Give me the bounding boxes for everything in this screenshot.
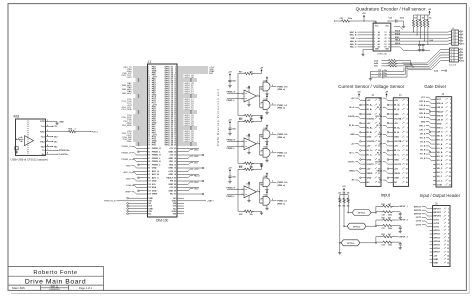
svg-text:GND: GND: [394, 177, 399, 179]
wire J1 right stub: [180, 126, 197, 128]
svg-text:1: 1: [257, 94, 258, 96]
connector J8 pin 5: [430, 222, 433, 224]
connector J1 left pin 9: [145, 74, 148, 76]
svg-text:hal 2x3: hal 2x3: [449, 65, 457, 67]
junction: [190, 94, 192, 96]
svg-text:97: 97: [148, 174, 150, 176]
junction: [138, 80, 140, 82]
connector J3 pin 11: [390, 145, 393, 147]
power flag top right cell 1: [261, 71, 263, 73]
connector J1 right pin 102: [177, 180, 180, 182]
wire bottom rail cell 1: [254, 115, 262, 117]
connector J1 left pin 69: [145, 134, 148, 136]
connector J8 pin 4: [430, 219, 433, 221]
svg-text:11: 11: [388, 41, 390, 43]
wire hal2 stub: [441, 70, 445, 72]
wire encoder bus HALB: [394, 43, 449, 45]
svg-text:GND: GND: [168, 184, 173, 186]
svg-text:PWM3_H: PWM3_H: [227, 188, 236, 190]
wire J1 right net: [180, 108, 184, 110]
connector J1 left pin 45: [145, 110, 148, 112]
svg-text:9: 9: [448, 237, 449, 239]
svg-text:11: 11: [449, 140, 451, 142]
svg-text:3: 3: [47, 130, 48, 132]
svg-text:18: 18: [174, 83, 176, 85]
ground M3 DTR: [56, 121, 58, 123]
connector J2 pin 5: [363, 118, 366, 120]
svg-text:PWM2_L: PWM2_L: [152, 158, 161, 160]
svg-text:GND: GND: [367, 177, 372, 179]
power flag input pull-ups: [343, 190, 345, 192]
connector J6 pin 13: [433, 147, 436, 149]
svg-text:68: 68: [174, 133, 176, 135]
connector J1 left pin 89: [145, 161, 148, 163]
svg-text:GPIO_30: GPIO_30: [185, 125, 195, 127]
connector J6 pin 6: [433, 119, 436, 121]
wire encoder bus ENCB: [394, 34, 449, 36]
wire encoder bus HALA: [394, 40, 449, 42]
svg-text:39: 39: [148, 105, 150, 107]
wire encoder input HAL_A: [358, 40, 374, 42]
svg-text:7: 7: [47, 149, 48, 151]
svg-text:85: 85: [148, 155, 150, 157]
svg-text:7: 7: [448, 230, 449, 232]
svg-text:HIN_A: HIN_A: [419, 100, 426, 103]
connector J2 pin 3: [363, 109, 366, 111]
wire gate output PWM1_LO: [271, 104, 276, 106]
connector J8 pin 10: [430, 240, 433, 242]
wire J6 pin 5 net label: [431, 115, 433, 117]
svg-text:98: 98: [174, 174, 176, 176]
svg-text:6: 6: [47, 145, 48, 147]
svg-text:INPUT3: INPUT3: [433, 216, 441, 218]
connector J1 left pin 57: [145, 122, 148, 124]
connector J2 body: [366, 98, 381, 187]
connector J2 pin 13: [363, 154, 366, 156]
ground pin gate U3C: [266, 205, 268, 207]
wire J2 pin 14 open end: [361, 159, 363, 161]
wire J3 pin 15 net label: [388, 163, 391, 165]
svg-text:88: 88: [174, 158, 176, 160]
wire J6 pin 11 net label: [431, 139, 433, 141]
svg-text:3: 3: [374, 38, 375, 40]
svg-text:VS_A: VS_A: [437, 143, 443, 146]
wire J1 right net: [180, 138, 184, 140]
svg-text:IN_B+: IN_B+: [349, 125, 356, 127]
wire J2 pin 2 open end: [361, 104, 363, 106]
svg-text:87: 87: [148, 158, 150, 160]
wire J1 left net: [133, 102, 145, 104]
connector J1 right pin 94: [177, 167, 180, 169]
wire encoder input ENC_I: [358, 37, 374, 39]
svg-text:9: 9: [260, 203, 261, 205]
wire J2 pin 3 net label: [360, 109, 363, 111]
connector J1 body: [148, 64, 178, 217]
connector J1 left pin 19: [145, 84, 148, 86]
connector J1 left pin 123: [145, 213, 148, 215]
wire J2 pin 5 net label: [360, 118, 363, 120]
wire M3 pin net: [51, 149, 59, 151]
svg-text:GND: GND: [127, 141, 132, 143]
junction: [138, 94, 140, 96]
svg-text:76: 76: [174, 141, 176, 143]
wire J2 pin 13 net label: [360, 154, 363, 156]
svg-text:75: 75: [148, 141, 150, 143]
wire op-amp output cell 3: [257, 191, 260, 193]
connector J1 left pin 85: [145, 154, 148, 156]
wire J1 left net: [133, 118, 145, 120]
svg-text:FAULT: FAULT: [419, 108, 426, 111]
svg-text:18: 18: [406, 177, 408, 179]
svg-text:83: 83: [148, 151, 150, 153]
wire J1 lower right stub: [180, 197, 184, 199]
connector J1 left pin 115: [145, 202, 148, 204]
svg-text:19: 19: [148, 85, 150, 87]
wire J2 pin 18 open end: [361, 177, 363, 179]
wire J1 left net: [133, 120, 145, 122]
svg-text:+5V: +5V: [394, 100, 398, 102]
svg-text:HIN_C: HIN_C: [437, 128, 444, 130]
power flag cell 3: [229, 171, 231, 173]
connector J1 right pin 28: [177, 92, 180, 94]
svg-text:GND: GND: [194, 182, 199, 184]
svg-text:GND: GND: [152, 190, 157, 192]
svg-text:19: 19: [449, 172, 451, 174]
svg-text:26: 26: [174, 91, 176, 93]
wire J1 left net: [133, 122, 145, 124]
wire input net label 2: [393, 219, 398, 221]
svg-text:5: 5: [47, 140, 48, 142]
wire encoder bus bend 2: [394, 46, 400, 48]
wire J1 lower left open end: [129, 210, 145, 212]
wire bus to opto 1: [348, 212, 352, 214]
junction: [190, 96, 192, 98]
wire J1 right net: [180, 90, 184, 92]
svg-text:LO_C: LO_C: [437, 180, 443, 182]
connector J8 pin 3: [430, 215, 433, 217]
wire gate second input U2C: [261, 149, 263, 151]
svg-text:56: 56: [174, 121, 176, 123]
svg-text:62: 62: [174, 127, 176, 129]
svg-text:PWM1_HO: PWM1_HO: [277, 86, 288, 88]
wire J2 pin 1 net label: [360, 99, 363, 101]
wire gate second input U1C: [261, 101, 263, 103]
wire input bus drops: [347, 204, 349, 213]
connector J3 pin 10: [390, 140, 393, 142]
svg-text:GND: GND: [394, 114, 399, 116]
svg-text:22: 22: [174, 87, 176, 89]
connector J1 right pin 64: [177, 128, 180, 130]
connector J1 left pin 21: [145, 86, 148, 88]
wire J1 right net: [180, 136, 184, 138]
junction: [190, 112, 192, 114]
nand gate U2B: [263, 130, 270, 139]
connector J2 pin 10: [363, 140, 366, 142]
svg-text:IN_B-: IN_B-: [394, 132, 400, 134]
connector J3 pin 9: [390, 136, 393, 138]
ground cap C7: [422, 48, 424, 50]
svg-text:GPIO_14: GPIO_14: [185, 93, 195, 95]
connector J2 pin 2: [363, 104, 366, 106]
wire J1 left plain: [133, 170, 145, 172]
svg-text:GND: GND: [126, 179, 131, 181]
connector J3 pin 3: [390, 109, 393, 111]
svg-text:U2B: U2B: [264, 128, 268, 130]
svg-text:HIN_C: HIN_C: [419, 125, 426, 127]
svg-text:13: 13: [449, 148, 451, 150]
junction open circle J6: [429, 111, 431, 113]
svg-text:GND: GND: [394, 137, 399, 139]
wire bus to opto 3: [340, 242, 341, 244]
wire J1 left no-connect: [140, 151, 145, 153]
svg-text:HAL_C: HAL_C: [350, 46, 357, 49]
svg-text:8: 8: [175, 73, 176, 75]
svg-text:20: 20: [174, 85, 176, 87]
svg-text:SCL: SCL: [152, 184, 157, 186]
connector J1 right pin 68: [177, 132, 180, 134]
connector J8 pin 1: [430, 208, 433, 210]
svg-text:1: 1: [374, 32, 375, 34]
wire J1 left net jog: [137, 148, 145, 150]
connector J3 pin 12: [390, 149, 393, 151]
svg-text:6: 6: [450, 119, 451, 121]
svg-text:VCC: VCC: [421, 97, 426, 99]
svg-text:OUT1: OUT1: [433, 219, 439, 221]
svg-text:GPIO_06: GPIO_06: [185, 77, 195, 79]
svg-text:LO_A: LO_A: [420, 145, 426, 148]
connector J8 pin 6: [430, 226, 433, 228]
power flag J2 top: [358, 95, 360, 97]
ic U2 right pin 9: [391, 34, 394, 36]
svg-text:15: 15: [148, 81, 150, 83]
svg-text:GND: GND: [168, 174, 173, 176]
wire J1 left net: [133, 134, 145, 136]
svg-text:6: 6: [407, 123, 408, 125]
wire top rail cell 3: [254, 168, 262, 170]
svg-text:1: 1: [257, 142, 258, 144]
svg-text:LIN_A: LIN_A: [437, 106, 444, 109]
capacitor C1 100n: [229, 78, 231, 81]
svg-text:GND: GND: [126, 166, 131, 168]
connector J1 left pin 99: [145, 177, 148, 179]
svg-text:NC: NC: [367, 182, 371, 184]
connector J3 body: [393, 98, 408, 187]
svg-text:PWM2_H: PWM2_H: [152, 155, 161, 157]
svg-text:VBUS: VBUS: [377, 171, 383, 173]
svg-text:IN_A+: IN_A+: [394, 104, 401, 107]
wire J2 pin 10 open end: [361, 140, 363, 142]
svg-text:12: 12: [388, 44, 390, 46]
connector J1 right pin 120: [177, 208, 180, 210]
wire J1 left net jog: [137, 180, 145, 182]
op-amp U2A: [244, 138, 257, 150]
svg-text:GND: GND: [168, 168, 173, 170]
connector J5 row divider: [450, 53, 459, 55]
connector J5 left pin 9: [447, 60, 450, 62]
wire J6 pin 4 net label: [431, 111, 433, 113]
svg-text:35: 35: [148, 101, 150, 103]
connector J2 pin 1: [363, 99, 366, 101]
svg-text:+5V: +5V: [394, 123, 398, 125]
connector J6 pin 10: [433, 135, 436, 137]
wire encoder bus bend 1: [394, 26, 400, 28]
connector J3 pin 19: [390, 181, 393, 183]
connector J4 row divider: [452, 35, 459, 37]
svg-text:11: 11: [378, 146, 380, 148]
svg-text:9: 9: [389, 35, 390, 37]
svg-text:HIN_B: HIN_B: [437, 115, 444, 117]
svg-text:VREF: VREF: [152, 194, 158, 196]
connector J6 pin 11: [433, 139, 436, 141]
ic U2 right pin 11: [391, 40, 394, 42]
connector J1 left pin 103: [145, 183, 148, 185]
wire bus to opto 2: [344, 225, 347, 227]
wire input PWM2_H: [227, 140, 244, 142]
svg-text:DTR: DTR: [40, 121, 45, 123]
wire J1 left net: [133, 130, 145, 132]
ground ic U2: [363, 49, 373, 51]
connector J1 right pin 114: [177, 200, 180, 202]
wire J1 right stub: [180, 80, 197, 82]
connector J1 right pin 54: [177, 118, 180, 120]
connector J1 left pin 83: [145, 151, 148, 153]
svg-text:1: 1: [257, 190, 258, 192]
connector J8 pin 2: [430, 211, 433, 213]
svg-text:+15V: +15V: [168, 171, 173, 173]
svg-text:ENCA: ENCA: [395, 30, 401, 33]
wire power net PWRB from J1: [117, 200, 145, 202]
wire hall bus vertical 1: [410, 61, 412, 65]
svg-text:PWM3_L: PWM3_L: [227, 196, 236, 198]
svg-text:+3V3: +3V3: [126, 77, 132, 79]
wire J2 pin 9 net label: [360, 136, 363, 138]
svg-text:12: 12: [406, 150, 408, 152]
wire J2 pin 19 net label: [360, 181, 363, 183]
svg-text:1: 1: [407, 100, 408, 102]
wire J1 right power net: [180, 66, 208, 68]
optocoupler OC3: [341, 240, 360, 246]
svg-text:21: 21: [148, 87, 150, 89]
svg-text:PWM3_L: PWM3_L: [152, 164, 161, 166]
wire J6 pin 8 net label: [431, 127, 433, 129]
svg-text:VB_B: VB_B: [437, 152, 443, 154]
svg-text:VREF: VREF: [125, 192, 131, 194]
junction: [138, 126, 140, 128]
wire J2 pin 15 net label: [360, 163, 363, 165]
connector J3 pin 5: [390, 118, 393, 120]
ground pin op-amp cell 3: [248, 196, 250, 199]
svg-text:+5V: +5V: [394, 168, 398, 170]
svg-text:80: 80: [174, 145, 176, 147]
connector J2 pin 19: [363, 181, 366, 183]
svg-text:10k: 10k: [347, 193, 350, 195]
svg-text:70: 70: [174, 135, 176, 137]
svg-text:10k: 10k: [414, 17, 417, 19]
wire J1 right net: [180, 84, 184, 86]
wire J1 lower right stub: [180, 210, 184, 212]
wire J6 pin 1 net label: [431, 98, 433, 100]
svg-text:IN_C+: IN_C+: [394, 150, 401, 152]
svg-text:38: 38: [174, 103, 176, 105]
svg-text:LIN_C: LIN_C: [437, 132, 444, 134]
wire J3 pin 4 open end: [389, 113, 391, 115]
ground rc 1: [399, 215, 401, 216]
connector J5 right pin 4: [459, 51, 460, 53]
connector J6 pin 18: [433, 167, 436, 169]
svg-text:5: 5: [448, 223, 449, 225]
connector J1 left pin 33: [145, 98, 148, 100]
wire hall sensor fans: [402, 62, 427, 64]
junction: [190, 144, 192, 146]
svg-text:INPUT1: INPUT1: [433, 209, 441, 211]
svg-text:INPUT_2: INPUT_2: [400, 220, 409, 222]
svg-text:18: 18: [449, 168, 451, 170]
wire J8 pin 4 net label: [428, 219, 430, 221]
svg-text:6: 6: [462, 55, 463, 57]
wire J1 right open end: [180, 154, 202, 156]
svg-text:GND: GND: [194, 188, 199, 190]
connector J1 right pin 108: [177, 190, 180, 192]
ground hall caps: [370, 77, 372, 79]
connector J5 body: [450, 48, 459, 62]
connector J1 right pin 26: [177, 90, 180, 92]
svg-text:9: 9: [260, 107, 261, 109]
wire M3 pin net: [51, 136, 53, 138]
connector J1 right pin 32: [177, 96, 180, 98]
wire encoder input ENC_B: [358, 34, 374, 36]
wire J6 pin 14 net label: [431, 151, 433, 153]
wire J1 lower left open end: [129, 213, 145, 215]
svg-text:VBUS: VBUS: [349, 171, 355, 173]
junction open circle J6: [429, 131, 431, 133]
wire cap C15 return: [385, 71, 404, 73]
svg-text:GND: GND: [152, 181, 157, 183]
connector J1 right pin 40: [177, 104, 180, 106]
connector J4 left pin 3: [449, 34, 452, 36]
wire J3 pin 13 net label: [388, 154, 391, 156]
svg-text:67: 67: [148, 133, 150, 135]
svg-text:10: 10: [406, 141, 408, 143]
wire encoder vcc rail: [351, 20, 376, 22]
wire J1 right net: [180, 106, 184, 108]
connector J1 right pin 88: [177, 157, 180, 159]
svg-text:GND: GND: [433, 263, 438, 265]
wire J3 pin 3 net label: [388, 109, 391, 111]
wire RXD1 net: [77, 131, 91, 133]
wire J1 right net jog: [180, 157, 188, 159]
connector J1 left pin 23: [145, 88, 148, 90]
svg-text:RST: RST: [209, 73, 214, 75]
connector J1 left pin 93: [145, 167, 148, 169]
svg-text:Current Sensor / Voltage Senso: Current Sensor / Voltage Sensor: [338, 84, 405, 89]
svg-text:PWM1_LO: PWM1_LO: [277, 105, 287, 107]
svg-text:PWM2_HO: PWM2_HO: [277, 134, 288, 136]
wire J1 right net jog: [180, 170, 188, 172]
wire J1 right power net: [180, 72, 208, 74]
module M3 usb icon: [17, 138, 24, 140]
junction: [138, 128, 140, 130]
wire J1 left net jog: [137, 154, 145, 156]
connector J2 pin 7: [363, 127, 366, 129]
wire gate output PWM3_LO: [271, 200, 276, 202]
wire J1 lower right stub: [180, 208, 184, 210]
capacitor C7 filter: [422, 43, 424, 45]
connector J4 right pin 8: [459, 40, 461, 42]
svg-text:99: 99: [148, 177, 150, 179]
wire J8 pin 5 net label: [428, 222, 430, 224]
svg-text:8: 8: [407, 132, 408, 134]
svg-text:63: 63: [148, 129, 150, 131]
